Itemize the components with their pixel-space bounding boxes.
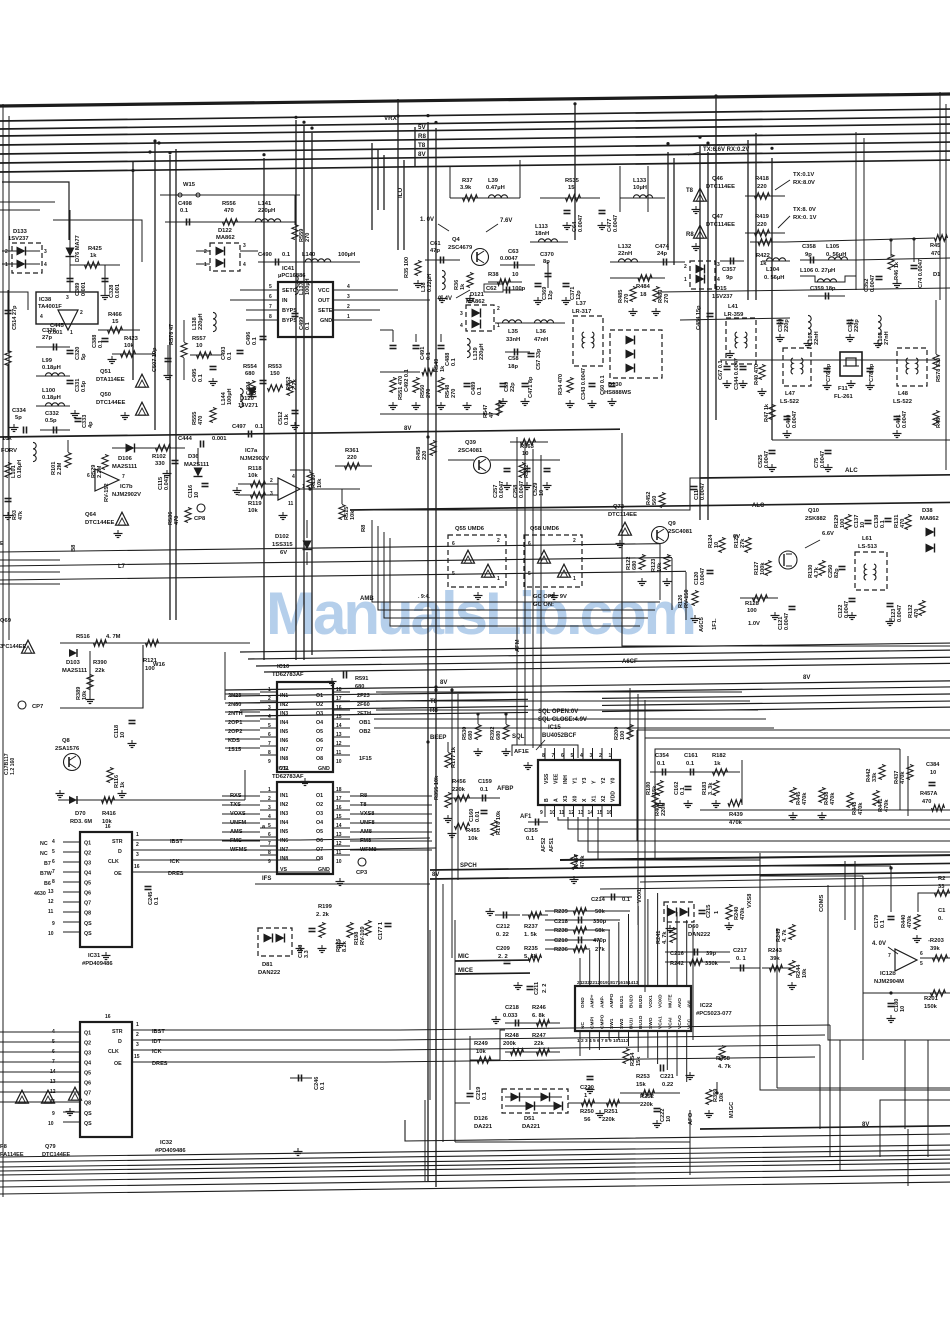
svg-text:220p: 220p [854,319,860,332]
svg-text:SETC: SETC [282,288,297,294]
svg-text:D121: D121 [470,292,485,298]
svg-text:0.1: 0.1 [426,352,432,360]
svg-text:R456: R456 [452,779,467,785]
svg-text:220k: 220k [661,803,667,816]
svg-text:C1: C1 [938,908,946,914]
svg-text:D130: D130 [608,382,622,388]
svg-text:CP3: CP3 [356,870,368,876]
svg-text:R34 470: R34 470 [558,374,564,395]
left mid bus entries [89,651,91,700]
svg-text:1: 1 [268,787,271,793]
svg-text:IN3: IN3 [280,811,288,817]
capacitor C320 5p [67,350,74,352]
svg-text:6: 6 [87,473,90,479]
wires IC11 right outs [350,795,432,797]
wire IC32 outputs extended [400,1025,830,1030]
svg-text:IC41: IC41 [282,266,295,272]
svg-text:8: 8 [52,879,55,885]
svg-text:LR-317: LR-317 [572,309,591,315]
svg-text:10: 10 [512,272,518,278]
svg-text:Q10: Q10 [808,508,819,514]
svg-text:12p: 12p [576,290,582,300]
nested rail 2 [645,737,950,739]
svg-text:C357: C357 [722,267,736,273]
svg-text:100µH: 100µH [338,252,355,258]
svg-text:220: 220 [757,222,767,228]
wire feedback box right [918,893,930,912]
svg-text:1: 1 [5,262,8,268]
svg-text:6: 6 [269,294,272,300]
wire vertical x748 x756 [747,140,749,300]
svg-text:R182: R182 [712,753,726,759]
svg-text:R439: R439 [729,812,744,818]
svg-text:T8: T8 [430,699,438,705]
ground IC7a input [236,487,238,491]
transformer L48 LS-522 dashed [897,348,927,386]
svg-text:0.1: 0.1 [255,424,264,430]
wire vertical x264 [263,158,265,660]
svg-text:RX:8.0V: RX:8.0V [793,180,815,186]
svg-text:9: 9 [540,810,543,816]
svg-text:0.47µH: 0.47µH [486,185,505,191]
svg-text:0.0047: 0.0047 [500,256,518,262]
svg-text:1: 1 [609,753,612,759]
svg-text:C497: C497 [232,424,246,430]
svg-text:0.18µH: 0.18µH [17,460,23,478]
svg-text:IC12b: IC12b [880,971,896,977]
op-amp IC38 TA4001F box [36,292,98,324]
svg-text:Q64: Q64 [85,512,97,518]
svg-text:NC: NC [40,841,48,847]
svg-text:2FTH: 2FTH [357,711,371,717]
resistor left edge vertical [5,351,11,366]
AGC block enclosure [622,433,950,646]
wire vertical bundle x296-312 [295,120,297,660]
svg-text:IN4: IN4 [280,720,288,726]
svg-text:C214: C214 [591,897,606,903]
svg-text:NC: NC [40,851,48,857]
wire net rows mid [0,544,660,552]
svg-text:µPC16886: µPC16886 [278,273,306,279]
svg-text:8: 8 [268,850,271,856]
svg-text:QS: QS [84,1111,92,1117]
svg-text:#PC5023-077: #PC5023-077 [696,1011,732,1017]
svg-text:47p: 47p [430,248,440,254]
svg-text:C514 27p: C514 27p [12,305,18,330]
svg-text:L133: L133 [633,178,647,184]
svg-text:ALC: ALC [845,467,858,474]
wire center verticals x630-645 [629,688,631,736]
svg-text:100µH: 100µH [305,278,311,295]
svg-text:0.5p: 0.5p [81,380,87,392]
svg-text:IC22: IC22 [700,1003,712,1009]
svg-text:220k: 220k [640,1102,654,1108]
svg-text:10: 10 [900,1006,906,1012]
svg-text:2SK882: 2SK882 [805,516,826,522]
svg-text:CMPO: CMPO [599,1014,605,1029]
svg-text:18p: 18p [508,364,518,370]
svg-text:1.0V: 1.0V [748,621,760,627]
wire IC41 inputs [240,289,266,291]
svg-text:14: 14 [336,723,342,729]
svg-text:R47 1k: R47 1k [764,403,770,422]
svg-text:3: 3 [717,262,720,268]
svg-text:1SS315: 1SS315 [272,542,293,548]
svg-text:C332: C332 [45,411,59,417]
svg-text:AFO: AFO [688,1112,694,1125]
svg-text:E: E [0,541,4,547]
svg-text:Q1: Q1 [84,1031,91,1037]
wire row cluster [380,371,420,373]
diode D15 1SV237 [690,261,715,289]
svg-text:IN8: IN8 [280,756,288,762]
svg-text:MA2S111: MA2S111 [62,668,88,674]
svg-text:A: A [554,798,560,802]
wire right edge verticals mid [844,861,846,920]
svg-text:16: 16 [607,810,613,816]
svg-text:56: 56 [584,1117,591,1123]
svg-text:1. 5k: 1. 5k [524,932,538,938]
svg-text:2. 2: 2. 2 [542,984,548,993]
svg-text:CP7: CP7 [32,704,43,710]
svg-text:C507 10p: C507 10p [152,347,158,372]
svg-text:8V: 8V [418,151,426,158]
ground afie [527,762,529,766]
svg-text:2. 2: 2. 2 [498,954,508,960]
svg-text:CMPI: CMPI [590,1016,596,1029]
svg-text:IN5: IN5 [280,829,288,835]
svg-text:10k: 10k [719,1092,725,1102]
svg-text:Q51: Q51 [100,369,112,375]
svg-text:DTC114EE: DTC114EE [706,222,735,228]
svg-text:2.2M: 2.2M [57,462,63,475]
svg-text:IC11: IC11 [277,766,290,772]
svg-text:8p: 8p [543,259,550,265]
svg-text:R554: R554 [243,364,258,370]
svg-text:8: 8 [269,314,272,320]
svg-text:IC38: IC38 [39,297,52,303]
wire COMS box [776,928,778,1088]
capacitor C64 0.0047 [564,210,571,212]
wire verticals right of IC32 outputs [829,1025,831,1157]
svg-text:2: 2 [204,249,207,255]
svg-text:8V: 8V [803,675,810,681]
svg-text:220: 220 [422,451,428,460]
wire filter chain y320 right [680,318,790,320]
svg-text:0.001: 0.001 [115,284,121,298]
svg-text:1: 1 [136,1022,139,1028]
svg-text:MA862: MA862 [920,516,939,522]
svg-text:15: 15 [112,319,119,325]
svg-text:10k: 10k [124,343,134,349]
svg-text:R455: R455 [466,828,481,834]
svg-text:GC ON:: GC ON: [533,602,554,608]
svg-text:2: 2 [268,796,271,802]
svg-text:IC32: IC32 [160,1140,172,1146]
svg-text:L35: L35 [508,329,519,335]
svg-text:RV-150: RV-150 [684,589,690,608]
svg-text:SQL CLOSE:4.9V: SQL CLOSE:4.9V [538,717,587,723]
svg-text:L141: L141 [258,201,272,207]
svg-text:3: 3 [66,295,69,301]
svg-text:4: 4 [292,474,295,480]
svg-text:2: 2 [599,753,602,759]
svg-text:0.1: 0.1 [477,387,483,395]
svg-text:12: 12 [336,841,342,847]
svg-text:C330: C330 [42,328,56,334]
IC31 uPD40948G box [80,832,132,947]
svg-text:6. 8k: 6. 8k [532,1013,546,1019]
svg-text:D81: D81 [262,962,273,968]
svg-text:C177 1: C177 1 [378,922,384,940]
svg-text:Q4: Q4 [84,871,91,877]
svg-text:7: 7 [52,869,55,875]
svg-text:10k: 10k [476,1049,486,1055]
svg-text:220k: 220k [452,787,466,793]
svg-text:12p: 12p [548,290,554,300]
svg-text:NJM2902V: NJM2902V [240,456,269,462]
test point CP7 [18,701,26,709]
svg-text:C355: C355 [524,828,539,834]
svg-text:X: X [582,798,588,802]
svg-text:50k: 50k [595,909,605,915]
svg-text:AMPO: AMPO [609,993,615,1008]
wire vertical bottom center [424,1100,426,1181]
svg-text:IC15: IC15 [548,725,561,731]
svg-text:9: 9 [52,1111,55,1117]
svg-text:4: 4 [580,753,583,759]
svg-text:RD3. 6M: RD3. 6M [70,819,92,825]
svg-text:VSS: VSS [544,773,550,784]
svg-text:6: 6 [528,541,531,547]
svg-text:22k: 22k [534,1041,544,1047]
svg-text:0.1: 0.1 [154,897,160,905]
svg-text:C57 33p: C57 33p [536,348,542,370]
svg-text:DTA114EE: DTA114EE [96,377,125,383]
svg-text:O1: O1 [316,793,323,799]
svg-text:1F1.: 1F1. [712,618,718,630]
transistor Q9 2SC4081 [652,527,669,544]
capacitor C369 12p [535,283,542,285]
svg-text:R236: R236 [554,947,569,953]
svg-text:4. 0V: 4. 0V [872,941,886,947]
svg-text:D103: D103 [66,660,81,666]
svg-text:Q3: Q3 [84,1051,91,1057]
svg-text:R591: R591 [355,676,368,682]
junction dots mid [426,435,429,438]
svg-text:NJM2904M: NJM2904M [874,979,904,985]
svg-text:DA221: DA221 [474,1124,493,1130]
svg-text:T8: T8 [418,142,426,149]
IC15 BU4052BCF box [538,760,620,805]
svg-text:1k: 1k [714,761,721,767]
svg-text:R46 1k: R46 1k [894,261,900,280]
svg-text:VRX: VRX [384,115,398,122]
svg-text:R121: R121 [143,658,158,664]
svg-text:C159: C159 [478,779,493,785]
bus line T8 top [0,133,950,145]
svg-text:5: 5 [269,284,272,290]
svg-text:16: 16 [105,824,111,830]
svg-text:4.7k: 4.7k [814,566,820,578]
svg-text:OB2: OB2 [359,729,371,735]
svg-text:CLK: CLK [108,859,119,865]
svg-text:LR-359: LR-359 [724,312,744,318]
svg-text:R8: R8 [418,133,426,140]
svg-text:AF1E: AF1E [514,749,529,755]
svg-text:R8: R8 [686,232,694,238]
svg-text:2: 2 [684,264,687,270]
svg-text:C484 15p: C484 15p [696,305,702,330]
wire IC41 outputs [345,289,398,291]
svg-text:8: 8 [542,753,545,759]
svg-text:Q2: Q2 [84,1041,91,1047]
svg-text:R235: R235 [524,946,539,952]
svg-text:4: 4 [268,814,271,820]
svg-text:DTC144EE: DTC144EE [42,1152,71,1158]
svg-text:L36: L36 [536,329,547,335]
wire nested rails lower [700,809,950,811]
svg-text:2: 2 [5,249,8,255]
svg-text:5: 5 [52,849,55,855]
svg-text:3°C144EE: 3°C144EE [0,644,26,650]
svg-text:470: 470 [198,416,204,425]
svg-text:Q79: Q79 [45,1144,56,1150]
svg-text:0.1: 0.1 [880,920,886,928]
svg-text:4p: 4p [88,421,94,428]
svg-text:Q2: Q2 [84,851,91,857]
svg-text:C490: C490 [258,252,272,258]
svg-text:7: 7 [268,741,271,747]
svg-text:9: 9 [52,921,55,927]
svg-text:16: 16 [336,705,342,711]
svg-text:10k: 10k [248,473,258,479]
svg-text:220µH: 220µH [479,343,485,360]
IC22 top pin wires [579,958,581,986]
svg-text:L48: L48 [898,391,909,397]
svg-text:0V: 0V [733,534,740,540]
svg-text:C212: C212 [496,924,510,930]
svg-text:3.3: 3.3 [304,950,310,958]
svg-text:270: 270 [451,389,457,398]
svg-text:Q8: Q8 [84,1101,91,1107]
svg-text:470k: 470k [729,820,743,826]
svg-text:4: 4 [717,277,720,283]
ground L41 [729,350,731,354]
svg-text:150k: 150k [924,1004,938,1010]
svg-text:1SV237: 1SV237 [8,236,29,242]
capacitor C215 1 vertical [699,910,706,912]
svg-text:4: 4 [460,323,463,329]
svg-text:D106: D106 [118,456,133,462]
svg-text:IN1: IN1 [280,693,288,699]
svg-text:2SC4081: 2SC4081 [668,529,693,535]
svg-text:100: 100 [145,666,155,672]
wire vertical x443 bottom [442,884,444,1142]
svg-text:33k: 33k [872,772,878,782]
svg-text:1. 0V: 1. 0V [420,217,434,223]
left edge stub rows [0,201,55,203]
svg-text:O4: O4 [316,820,323,826]
svg-text:D76 MA77: D76 MA77 [75,235,81,262]
svg-text:2: 2 [573,538,576,544]
svg-text:R516: R516 [76,634,91,640]
junction dots on buses [153,139,156,142]
crystal filter F11 FL-261 [840,352,862,376]
svg-text:2: 2 [268,696,271,702]
svg-text:Q55 UMD6: Q55 UMD6 [455,526,485,532]
svg-text:GND: GND [320,318,332,324]
wire filter chain y292 right [660,288,950,292]
svg-text:OB1: OB1 [359,720,371,726]
svg-text:10k: 10k [468,836,478,842]
left block outline corner [2,182,69,240]
svg-text:Y3: Y3 [582,778,588,784]
svg-text:0. 22: 0. 22 [496,932,509,938]
svg-text:DTC144EE: DTC144EE [96,400,125,406]
svg-text:L100: L100 [42,388,55,394]
svg-text:AFM: AFM [515,639,521,652]
svg-text:GND: GND [318,766,330,772]
svg-text:10: 10 [930,770,936,776]
svg-text:6: 6 [268,832,271,838]
svg-text:Q8: Q8 [62,738,71,744]
svg-text:R37: R37 [462,178,473,184]
svg-text:L104: L104 [766,267,780,273]
svg-text:11: 11 [336,750,342,756]
svg-text:C67 0.1: C67 0.1 [718,360,724,380]
svg-text:R355 10k: R355 10k [434,775,440,800]
wire IC7a out [300,488,360,490]
svg-text:IN7: IN7 [280,747,288,753]
wires IC10 outputs to right [376,691,742,693]
svg-text:D70: D70 [75,811,86,817]
svg-text:D: D [118,1039,122,1045]
IC22 big wiring box right [692,925,694,1040]
svg-text:R8: R8 [361,524,367,532]
IC32 uPD40948G box [80,1022,132,1137]
wire filter row [720,359,940,361]
svg-text:D: D [118,849,122,855]
wire vertical x398-404 [397,99,399,250]
svg-text:22k: 22k [95,668,105,674]
svg-text:IN2: IN2 [280,702,288,708]
wires IC31 outs [150,839,300,841]
bus line 6 [0,151,950,163]
svg-text:IN1: IN1 [280,793,288,799]
wire vertical x700-716 [699,146,701,520]
svg-text:8V: 8V [440,680,447,686]
sheet top border [0,94,950,106]
ground under R466 [111,356,113,360]
svg-text:C210: C210 [554,938,568,944]
IC22 outer box left edge [454,920,456,1142]
svg-text:680: 680 [496,731,502,740]
svg-text:10: 10 [194,492,200,498]
svg-text:Q6: Q6 [84,891,91,897]
svg-text:0.1: 0.1 [180,208,189,214]
svg-text:0.5p: 0.5p [45,418,57,424]
svg-text:560: 560 [652,496,658,505]
svg-text:2: 2 [497,538,500,544]
svg-text:R535: R535 [565,178,580,184]
svg-text:D133: D133 [13,229,28,235]
svg-text:C471 8p: C471 8p [528,376,534,398]
ground q8 [59,790,61,794]
svg-text:R45: R45 [930,243,940,249]
svg-text:242322212019181716151413: 242322212019181716151413 [577,980,639,985]
svg-text:100: 100 [620,731,626,740]
